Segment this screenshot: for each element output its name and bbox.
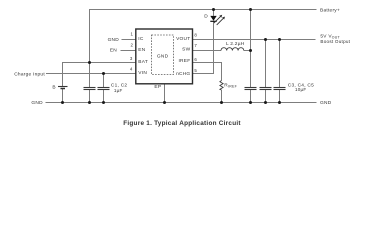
svg-text:6: 6	[194, 57, 197, 62]
svg-text:EN: EN	[110, 48, 117, 54]
svg-text:GND: GND	[157, 53, 169, 59]
svg-text:Boost Output: Boost Output	[320, 39, 350, 44]
svg-text:Battery+: Battery+	[320, 7, 340, 13]
svg-text:8: 8	[194, 32, 197, 37]
wire SW pin7 to inductor	[192, 50, 221, 52]
wire C5 branch	[279, 40, 281, 88]
wire C2 bottom to ground	[103, 90, 105, 103]
wire C2 branch	[103, 74, 105, 88]
wire pin2 EN stub	[121, 50, 136, 52]
svg-text:GND: GND	[320, 100, 332, 106]
capacitor C1	[84, 88, 96, 90]
wire C4 bottom to ground	[265, 90, 267, 103]
svg-text:RIREF: RIREF	[224, 83, 237, 89]
svg-text:BAT: BAT	[138, 59, 148, 65]
capacitor C3	[245, 88, 257, 90]
wire BAT pin3 to battery bend	[63, 63, 136, 87]
svg-text:EP: EP	[154, 84, 161, 90]
svg-text:1: 1	[130, 31, 133, 36]
wire resistor to ground	[221, 90, 223, 103]
svg-text:4: 4	[130, 67, 133, 72]
svg-text:SW: SW	[182, 47, 190, 53]
wire battery+ top rail	[90, 10, 317, 63]
wire vertical C1 branch	[89, 63, 91, 88]
svg-text:IC: IC	[138, 36, 144, 42]
wire battery to ground rail	[62, 89, 64, 103]
resistor RIREF	[220, 81, 223, 91]
wire nCHG pin5 to LED cathode	[192, 21, 213, 73]
wire C4 branch	[265, 40, 267, 88]
junction node gnd/C2	[102, 101, 105, 104]
wire pin1 GND stub	[122, 39, 136, 41]
svg-text:2: 2	[130, 43, 133, 48]
svg-text:B: B	[52, 85, 55, 91]
wire C1 bottom to ground	[89, 90, 91, 103]
internal GND dashed block	[152, 35, 174, 75]
junction node gnd/battery	[61, 101, 64, 104]
junction node rail/C3	[249, 8, 252, 11]
wire LED anode to battery rail	[213, 10, 215, 16]
wire ground rail	[46, 102, 317, 104]
capacitor C2	[98, 88, 110, 90]
wire C3 branch from battery rail	[250, 10, 252, 88]
junction node gnd/EP	[163, 101, 166, 104]
svg-text:Charge Input: Charge Input	[14, 71, 45, 77]
svg-text:Figure 1. Typical Application: Figure 1. Typical Application Circuit	[123, 120, 241, 127]
junction node VOUT/C4	[264, 38, 267, 41]
svg-text:D: D	[204, 13, 208, 19]
svg-text:nCHG: nCHG	[176, 71, 190, 77]
junction node gnd/RIREF	[220, 101, 223, 104]
junction node VOUT/C5	[278, 38, 281, 41]
inductor L 2.2uH	[221, 48, 244, 51]
svg-text:VIN: VIN	[138, 70, 147, 76]
svg-text:EN: EN	[138, 47, 145, 53]
svg-text:1µF: 1µF	[114, 88, 123, 93]
wire charge input to VIN pin4	[46, 73, 136, 75]
wire EP to ground	[164, 84, 166, 103]
junction node inductor/C3	[249, 49, 252, 52]
capacitor C5	[274, 88, 286, 90]
junction node gnd/C5	[278, 101, 281, 104]
IC U1 body	[136, 29, 193, 84]
junction node gnd/C3	[249, 101, 252, 104]
wire inductor to C3 node	[244, 50, 251, 52]
capacitor C4	[260, 88, 272, 90]
svg-text:IREF: IREF	[178, 58, 190, 64]
junction node gnd/C1	[88, 101, 91, 104]
LED D	[210, 15, 225, 25]
wire C3 bottom to ground	[250, 90, 252, 103]
junction node VIN/C2	[102, 72, 105, 75]
battery B	[58, 87, 68, 89]
svg-text:GND: GND	[31, 100, 43, 106]
svg-text:L 2.2µH: L 2.2µH	[226, 41, 245, 47]
svg-text:5: 5	[194, 68, 197, 73]
junction node BAT/C1	[88, 61, 91, 64]
svg-text:7: 7	[194, 43, 197, 48]
wire IREF pin6 to resistor	[192, 63, 221, 81]
svg-text:3: 3	[130, 56, 133, 61]
svg-text:10µF: 10µF	[295, 87, 306, 92]
junction node gnd/C4	[264, 101, 267, 104]
junction node LED anode	[212, 8, 215, 11]
svg-text:GND: GND	[108, 37, 120, 43]
wire C5 bottom to ground	[279, 90, 281, 103]
wire VOUT pin8 rail to output	[192, 39, 315, 41]
svg-text:VOUT: VOUT	[176, 36, 190, 42]
